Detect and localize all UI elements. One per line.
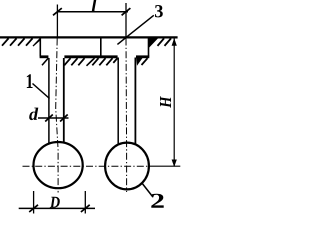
leader for 3 [117,15,153,44]
d tick left [45,115,53,122]
label 3 [155,5,163,17]
label 1 [27,74,33,88]
hatching under cap bottom : left ledge wedge [42,58,48,65]
ground hatching left of cap [2,38,33,45]
right pile centerline [125,39,128,193]
H arrow top [172,39,176,46]
H arrow bottom [172,160,176,166]
ground hatching right [158,38,172,46]
middle cap edge [100,38,102,56]
D tick left [29,205,38,212]
ground line [0,36,178,38]
leader for 1 [33,84,50,99]
right cap edge [148,38,150,56]
right shaft left line [117,58,119,145]
left cap edge [39,38,41,56]
d tick right [60,115,68,122]
label 2 [151,194,163,208]
hatch stroke right ledge [142,58,148,65]
label D [50,197,60,208]
dimension D extension right [84,191,86,214]
dimension l line [57,11,128,13]
ground hatch wedge right of cap corner [149,38,157,46]
label H rotated [160,96,171,108]
left bulb circle [34,142,83,188]
left pile centerline [56,39,58,193]
dimension l extension line right [125,3,127,39]
label l [92,0,97,12]
hatching under cap bottom : between shafts [64,58,117,65]
leader for 2 [142,183,153,197]
cap bottom line segments [40,55,49,58]
right bulb circle [105,143,149,190]
dimension d line [38,117,69,119]
hatching under cap bottom : right ledge [137,58,142,64]
label d [29,108,38,121]
tick left [53,8,62,15]
dimension D line [19,207,95,209]
tick right [122,8,131,15]
right shaft right line [134,58,136,146]
hatch wedge between shafts [87,58,95,66]
centerline solid extension to H line [150,165,180,167]
left shaft left line [48,58,50,144]
left shaft right line [63,58,65,144]
dimension l extension line left [56,5,58,39]
dimension H line [173,39,175,167]
bulb horizontal centerline [23,165,151,167]
D tick right [81,205,90,212]
ground hatch wedge at left cap corner [33,38,40,46]
dimension D extension left [33,191,35,214]
